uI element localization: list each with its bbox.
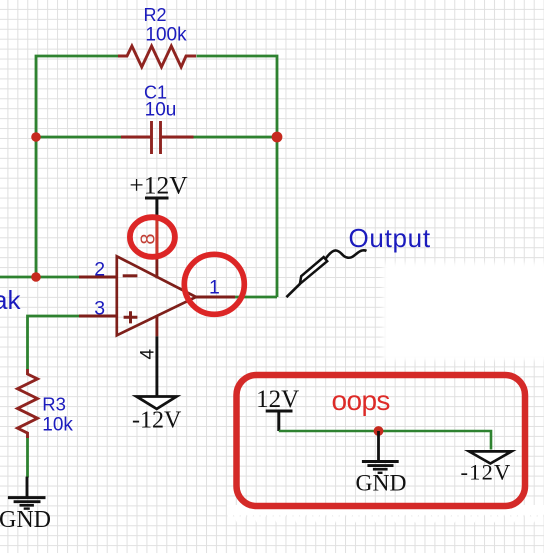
svg-text:10k: 10k: [42, 415, 73, 436]
+12V power symbol: [145, 198, 169, 216]
svg-text:oops: oops: [332, 385, 390, 416]
-12V power arrow symbol: [137, 397, 177, 409]
probe body: [300, 257, 327, 284]
ground symbol bottom left: [26, 477, 29, 497]
wire pin3 row: [28, 316, 80, 369]
wire in box: [279, 431, 491, 450]
probe tip wire: [286, 284, 300, 297]
svg-text:+12V: +12V: [129, 171, 188, 200]
wire pin 4 to -12V: [155, 336, 158, 396]
pin 8 stub: [155, 215, 158, 278]
wire pin2 row: [0, 276, 79, 279]
svg-text:-12V: -12V: [460, 460, 511, 485]
pin 4 stub: [155, 317, 158, 337]
wire R3 to gnd: [26, 436, 29, 478]
pin 2 stub: [79, 276, 117, 279]
pin 1 output stub: [196, 296, 235, 299]
wire output: [235, 296, 277, 299]
junction dot pin2: [31, 272, 41, 282]
white patch under Output: [384, 263, 544, 360]
svg-text:Output: Output: [349, 223, 431, 253]
pin 3 stub: [79, 315, 117, 318]
svg-text:R2: R2: [143, 5, 166, 25]
wire top loop left: [36, 56, 118, 277]
svg-text:1: 1: [209, 277, 220, 299]
svg-text:2: 2: [94, 258, 105, 280]
oops annotation box: [237, 375, 526, 506]
junction dot right C1: [272, 132, 283, 143]
resistor R2: [118, 46, 196, 67]
svg-text:3: 3: [94, 298, 105, 320]
op-amp U1 triangle: [117, 256, 196, 335]
svg-text:-12V: -12V: [132, 408, 182, 434]
-12V arrow in box: [469, 451, 511, 463]
op-amp plus sign: [124, 311, 138, 323]
12V bar symbol in box: [266, 411, 293, 431]
svg-text:4: 4: [138, 348, 159, 359]
svg-text:10u: 10u: [145, 100, 177, 121]
junction dot in box: [374, 426, 384, 436]
wire to gnd in box: [377, 431, 380, 461]
annotation circle around pin 8: [130, 217, 175, 257]
probe cable: [326, 250, 367, 258]
svg-text:8: 8: [137, 233, 159, 244]
svg-text:R3: R3: [42, 394, 66, 415]
wire R2 right to down right rail: [197, 56, 278, 297]
svg-text:12V: 12V: [256, 386, 299, 413]
ground symbol in box: [362, 462, 399, 473]
svg-text:GND: GND: [0, 507, 51, 533]
svg-text:ak: ak: [0, 285, 21, 315]
annotation circle around pin 1: [184, 254, 244, 314]
op-amp minus sign: [123, 274, 138, 277]
white torn band bottom right: [227, 505, 544, 523]
wire C1 row right: [194, 136, 278, 139]
resistor R3: [18, 369, 38, 438]
wire C1 row left: [36, 136, 121, 139]
junction dot left C1: [31, 132, 41, 142]
svg-text:100k: 100k: [145, 25, 187, 46]
pin 8 stub highlight inside circle: [155, 217, 158, 258]
capacitor C1: [121, 121, 194, 154]
svg-text:GND: GND: [356, 471, 407, 497]
